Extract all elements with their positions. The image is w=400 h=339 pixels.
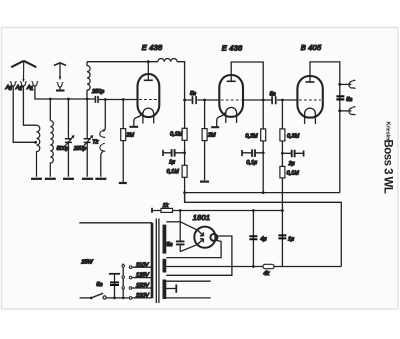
resistor R7 0.1M bias xyxy=(280,166,285,266)
node V2 grid junction xyxy=(203,99,206,102)
svg-text:5n: 5n xyxy=(190,91,196,97)
node C8 junction xyxy=(281,152,284,155)
variable capacitor C2 250p xyxy=(83,99,94,177)
svg-text:110V: 110V xyxy=(136,262,150,268)
svg-text:E 438: E 438 xyxy=(142,43,163,52)
V3 grid (dashed) xyxy=(299,99,321,101)
svg-text:250p: 250p xyxy=(73,146,86,152)
capacitor C9 5n output xyxy=(336,96,344,99)
svg-text:5n: 5n xyxy=(96,282,102,288)
node T2 junction xyxy=(338,109,341,112)
terminal bar (HT line left end) xyxy=(151,208,153,213)
svg-text:4k: 4k xyxy=(263,271,269,277)
node R5 to bus1 xyxy=(262,191,265,194)
transformer TR1 primary winding xyxy=(151,223,154,298)
tube V2 E438 envelope xyxy=(219,75,243,117)
svg-text:0,1M: 0,1M xyxy=(167,169,180,175)
V1 anode electrode xyxy=(144,62,153,81)
wire bus2 xyxy=(185,193,342,267)
output terminal T2 xyxy=(340,107,356,115)
svg-text:0,1μ: 0,1μ xyxy=(246,160,257,166)
V3 filament xyxy=(305,108,316,124)
svg-text:0,3M: 0,3M xyxy=(287,133,300,139)
svg-text:1μ: 1μ xyxy=(169,159,175,165)
node Tk junction xyxy=(104,98,107,101)
jack Tk lower contact xyxy=(100,143,105,176)
resistor R5 0.2M xyxy=(261,100,266,193)
node T1 junction xyxy=(338,83,341,86)
svg-text:2μ: 2μ xyxy=(288,161,295,167)
node C13 bottom xyxy=(113,297,116,300)
node V2 anode/C6 junction xyxy=(262,99,265,102)
resistor R2 2M grid leak V2 xyxy=(202,100,207,180)
svg-text:B 405: B 405 xyxy=(301,43,322,52)
wire cathode outer loop xyxy=(166,236,232,275)
ground (coil L1) xyxy=(31,178,42,180)
ground (V1 cathode) xyxy=(130,126,139,128)
svg-text:0,1M: 0,1M xyxy=(287,170,300,176)
variable capacitor C1 500p xyxy=(64,99,75,177)
resistor R6 0.3M grid leak V3 xyxy=(280,100,285,166)
node C10 bottom junction xyxy=(252,265,255,268)
svg-text:5n: 5n xyxy=(346,97,352,103)
terminal A3 xyxy=(10,82,17,86)
ground (C1) xyxy=(63,178,74,180)
V3 anode electrode and wire xyxy=(306,62,340,193)
wire V2 anode to C6 xyxy=(243,99,272,101)
V4 anode 1 xyxy=(197,230,204,236)
capacitor C4 5n coupling V1-V2 xyxy=(185,96,220,104)
resistor R9 4k xyxy=(263,264,274,268)
node C5 junction xyxy=(183,151,186,154)
coil L2 tuned secondary xyxy=(50,121,53,177)
ground (C2) xyxy=(82,178,93,180)
svg-text:0,1M: 0,1M xyxy=(170,132,183,138)
tap 110V xyxy=(129,266,152,269)
earth antenna symbol xyxy=(54,63,66,91)
capacitor C3 250p grid coupling xyxy=(95,96,137,103)
wire rectifier anode column xyxy=(166,211,197,252)
node V3 grid junction xyxy=(281,99,284,102)
ground (R1) xyxy=(119,182,127,184)
capacitor C6 5n coupling V2-V3 xyxy=(272,96,297,104)
V1 cathode ground wire xyxy=(134,113,143,126)
svg-text:5n: 5n xyxy=(270,91,276,97)
node C1 top xyxy=(67,98,70,101)
svg-text:150V: 150V xyxy=(136,283,150,289)
node C4 left junction xyxy=(183,99,186,102)
V2 filament xyxy=(226,107,237,123)
right margin rotated title xyxy=(382,122,394,194)
wire LT winding top xyxy=(166,280,210,282)
wire HT line to smoothing caps xyxy=(180,210,282,212)
capacitor C8 2u xyxy=(282,150,303,158)
node C11 top junction xyxy=(281,209,284,212)
node L2 top xyxy=(49,98,52,101)
V2 anode electrode and wire xyxy=(227,62,264,100)
svg-text:220V: 220V xyxy=(135,293,150,299)
LT winding centre tap terminal xyxy=(166,284,176,292)
node bus1 left junction xyxy=(183,191,186,194)
tube V3 B405 envelope xyxy=(297,76,322,118)
node V1 grid junction xyxy=(122,98,125,101)
capacitor C13 5n mains xyxy=(109,274,120,298)
V1 filament xyxy=(143,108,154,123)
svg-text:E 438: E 438 xyxy=(222,44,243,53)
resistor R8 1k xyxy=(152,208,180,212)
svg-text:1μ: 1μ xyxy=(288,236,294,242)
voltage selector bar xyxy=(122,264,125,300)
jack Tk upper contact xyxy=(100,100,105,138)
V2 cathode ground wire xyxy=(217,112,226,126)
capacitor C10 4u electrolytic xyxy=(249,211,257,267)
node V1 anode xyxy=(147,60,150,63)
V4 filament xyxy=(210,234,217,241)
node coil tap junction xyxy=(34,141,37,144)
transformer TR1 core xyxy=(156,219,159,304)
svg-text:5n: 5n xyxy=(166,242,172,248)
svg-text:25W: 25W xyxy=(80,259,93,265)
svg-text:1801: 1801 xyxy=(193,213,210,222)
wire anode bus V1 (top left) xyxy=(87,61,148,63)
svg-text:Boss 3 WL: Boss 3 WL xyxy=(382,140,394,194)
reaction coil L3 xyxy=(87,62,90,99)
ground (V2 cathode) xyxy=(211,126,219,128)
resistor R4 0.1M xyxy=(182,165,187,201)
svg-text:1: 1 xyxy=(30,86,33,92)
wire choke to C4 column xyxy=(148,62,184,129)
V2 grid (dashed) xyxy=(221,99,242,101)
mains switch S1 xyxy=(80,293,107,299)
node C7 junction xyxy=(262,151,265,154)
svg-text:250p: 250p xyxy=(91,89,104,95)
transformer TR1 LT filament winding xyxy=(162,280,166,300)
tap 220V xyxy=(129,297,152,300)
tube V1 E438 envelope xyxy=(138,74,160,117)
coil L1 antenna primary xyxy=(37,125,40,177)
wire mains to selector xyxy=(106,297,129,299)
wire A1 down to grid line xyxy=(35,86,96,99)
V1 grid (dashed) xyxy=(139,99,158,101)
node C10 top junction xyxy=(252,209,255,212)
terminal A2 xyxy=(20,82,27,86)
capacitor C7 0.1u xyxy=(242,149,263,157)
V4 anode 2 xyxy=(197,239,204,245)
transformer TR1 primary top wire xyxy=(79,222,152,224)
wire coil L2 top xyxy=(49,99,51,121)
svg-text:4μ: 4μ xyxy=(260,236,266,242)
capacitor C5 1u decoupling xyxy=(163,149,185,157)
wire A3 down to coil L1 tap xyxy=(13,86,35,142)
svg-text:Tk: Tk xyxy=(92,139,98,145)
svg-text:2: 2 xyxy=(18,86,22,92)
svg-text:125V: 125V xyxy=(136,273,150,279)
node C2 top / reaction coil bottom xyxy=(86,98,89,101)
choke coil L4 xyxy=(158,58,177,61)
svg-text:2M: 2M xyxy=(125,133,134,139)
ground (R2) xyxy=(200,181,209,183)
svg-text:0,2M: 0,2M xyxy=(245,133,258,139)
wire A2 down to coil L1 top xyxy=(23,86,36,125)
wire R3 to R4 xyxy=(184,140,186,165)
output terminal T1 xyxy=(340,80,356,88)
transformer TR1 rectifier filament winding xyxy=(162,259,166,273)
rectifier V4 1801 envelope xyxy=(194,227,215,248)
svg-text:1k: 1k xyxy=(163,203,169,209)
wire cathode inner loop xyxy=(166,240,221,257)
wire B+ bottom line xyxy=(166,266,341,268)
tap 125V xyxy=(129,276,152,279)
terminal A1 xyxy=(32,82,39,86)
svg-text:500p: 500p xyxy=(57,146,69,152)
capacitor C12 5n rectifier xyxy=(176,241,185,244)
wire LT winding bottom xyxy=(166,297,210,299)
wire bus1 xyxy=(185,192,340,194)
svg-text:2M: 2M xyxy=(207,133,216,139)
resistor R3 0.1M anode load V1 xyxy=(182,128,187,140)
antenna symbol xyxy=(11,61,36,83)
ground (Tk) xyxy=(95,178,106,180)
ground (coil L2) xyxy=(45,178,56,180)
tap 150V xyxy=(129,287,152,290)
transformer TR1 HV secondary xyxy=(162,225,166,254)
capacitor C11 1u electrolytic xyxy=(278,235,286,238)
resistor R1 2M grid leak V1 xyxy=(121,100,126,183)
node R8/rectifier junction xyxy=(179,209,182,212)
